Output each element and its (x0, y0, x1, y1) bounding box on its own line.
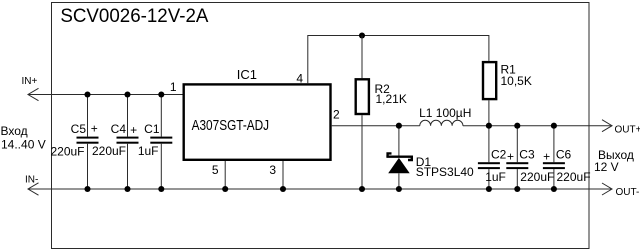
junction dot C4 top (124, 91, 130, 97)
svg-text:+: + (507, 149, 514, 163)
svg-text:3: 3 (269, 163, 276, 177)
junction dot D1 top (396, 123, 402, 129)
capacitor C2 (478, 126, 500, 189)
svg-text:C4: C4 (111, 122, 127, 136)
svg-text:12 V: 12 V (594, 160, 619, 174)
junction dot C1 top (158, 91, 164, 97)
resistor R2 (356, 36, 369, 190)
op-amp U1 : IC1 A307SGT-ADJ converter module body (184, 84, 331, 159)
capacitor C4 (117, 95, 139, 190)
svg-text:OUT+: OUT+ (615, 125, 640, 136)
svg-text:+: + (543, 149, 550, 163)
svg-text:C2: C2 (491, 148, 507, 162)
svg-text:4: 4 (296, 72, 303, 86)
junction dot R2 bottom (359, 186, 365, 192)
capacitor C3 (506, 126, 528, 189)
junction dot C3 top (514, 123, 520, 129)
svg-text:A307SGT-ADJ: A307SGT-ADJ (192, 118, 270, 134)
svg-text:10,5K: 10,5K (501, 74, 532, 88)
svg-text:C1: C1 (144, 122, 160, 136)
svg-text:1,21K: 1,21K (376, 92, 407, 106)
junction dot C5 bottom (84, 186, 90, 192)
wire inductor to OUT+ (463, 125, 612, 127)
junction dot pin 3 (280, 186, 286, 192)
svg-text:5: 5 (212, 163, 219, 177)
resistor R1 (483, 62, 496, 126)
wire pin 5 to ground (224, 161, 226, 189)
junction dot C6 top (551, 123, 557, 129)
label Выход 12 V (594, 148, 634, 174)
junction dot C3 bottom (514, 186, 520, 192)
wire ground rail (28, 188, 612, 190)
junction dot R2 top (359, 32, 365, 38)
svg-text:SCV0026-12V-2A: SCV0026-12V-2A (60, 6, 208, 27)
junction dot C6 bottom (551, 186, 557, 192)
label Вход 14..40 V (1, 124, 46, 152)
terminal IN+ (28, 88, 39, 100)
svg-text:+: + (130, 123, 137, 137)
svg-text:1uF: 1uF (138, 144, 159, 158)
svg-text:C6: C6 (556, 148, 572, 162)
capacitor C1 (150, 95, 172, 190)
svg-text:14..40 V: 14..40 V (1, 138, 46, 152)
svg-text:Вход: Вход (1, 124, 28, 138)
svg-text:IN+: IN+ (22, 76, 38, 87)
junction dot C2 bottom (486, 186, 492, 192)
junction dot pin 5 (222, 186, 228, 192)
terminal IN- (28, 183, 39, 195)
svg-text:C3: C3 (519, 148, 535, 162)
capacitor C6 (543, 126, 565, 189)
wire pin 2 to inductor (332, 125, 420, 127)
wire pin 3 to ground (282, 161, 284, 189)
junction dot C4 bottom (124, 186, 130, 192)
svg-text:STPS3L40: STPS3L40 (416, 165, 474, 179)
terminal OUT- (602, 183, 612, 195)
junction dot C1 bottom (158, 186, 164, 192)
junction dot C5 top (84, 91, 90, 97)
svg-text:L1 100µH: L1 100µH (419, 106, 471, 120)
junction dot C2 top (486, 123, 492, 129)
svg-text:220uF: 220uF (92, 144, 126, 158)
junction dot D1 bottom (396, 186, 402, 192)
svg-text:+: + (91, 122, 98, 136)
svg-text:IC1: IC1 (237, 67, 257, 82)
diode D1 STPS3L40 schottky (386, 126, 413, 189)
svg-text:220uF: 220uF (520, 170, 554, 184)
svg-text:OUT-: OUT- (616, 187, 640, 198)
svg-text:IN-: IN- (25, 175, 38, 186)
svg-text:2: 2 (333, 108, 340, 122)
wire pin 4 to feedback rail (308, 36, 489, 84)
svg-text:220uF: 220uF (50, 145, 84, 159)
svg-text:C5: C5 (71, 122, 87, 136)
capacitor C5 (77, 95, 99, 190)
svg-text:1uF: 1uF (485, 170, 506, 184)
terminal OUT+ (602, 120, 612, 132)
svg-text:1: 1 (170, 80, 177, 94)
wire IN+ rail (28, 94, 183, 96)
svg-text:220uF: 220uF (557, 170, 591, 184)
inductor L1 (420, 120, 463, 125)
